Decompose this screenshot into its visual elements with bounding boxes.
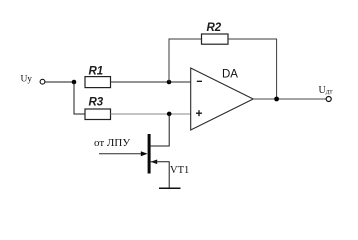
ground (159, 187, 181, 189)
wire R1 to op-amp inverting input (111, 81, 192, 83)
wire Uy terminal to junction A (45, 81, 74, 83)
junction C (non-inverting input node) (167, 112, 172, 117)
output terminal Uдт (326, 97, 331, 102)
feedback wire down to output node (276, 39, 278, 99)
wire op-amp output to terminal (253, 98, 326, 100)
transistor VT1 channel bar (148, 134, 151, 174)
label R1 (89, 66, 104, 78)
label от ЛПУ (94, 137, 130, 149)
junction B (inverting input node) (167, 80, 172, 85)
resistor R3 (85, 109, 111, 120)
svg-text:от ЛПУ: от ЛПУ (94, 137, 130, 149)
label VT1 (170, 165, 189, 176)
gate wire from ЛПУ (99, 153, 142, 155)
source arrowhead (151, 160, 158, 165)
feedback top wire left segment (169, 38, 202, 40)
gate arrowhead (141, 151, 148, 156)
wire VT1 drain to non-inverting node (151, 114, 170, 146)
svg-text:R2: R2 (207, 22, 222, 34)
node Uдт label (319, 85, 334, 96)
svg-text:R3: R3 (89, 97, 104, 109)
svg-text:VT1: VT1 (170, 165, 189, 176)
label DA (222, 68, 238, 80)
op-amp U DA triangle (191, 68, 254, 130)
label R2 (207, 22, 222, 34)
svg-text:Uдт: Uдт (319, 85, 334, 96)
node Uy label (21, 73, 33, 84)
input terminal Uy (40, 79, 45, 84)
source wire to ground (151, 162, 170, 188)
op-amp inverting pin marker (minus) (197, 80, 202, 82)
svg-text:R1: R1 (89, 66, 104, 78)
feedback top wire right segment (228, 38, 277, 40)
resistor R1 (85, 77, 111, 88)
wire junction A down to R3 branch (74, 82, 85, 114)
resistor R2 (202, 34, 229, 44)
junction A (input node) (72, 80, 77, 85)
feedback wire up from junction B (168, 39, 170, 82)
junction D (output node) (274, 97, 279, 102)
wire R3 to op-amp non-inverting input (111, 113, 192, 115)
label R3 (89, 97, 104, 109)
op-amp non-inverting pin marker (plus) (196, 110, 202, 116)
svg-text:Uу: Uу (21, 73, 33, 84)
svg-text:DA: DA (222, 68, 238, 80)
